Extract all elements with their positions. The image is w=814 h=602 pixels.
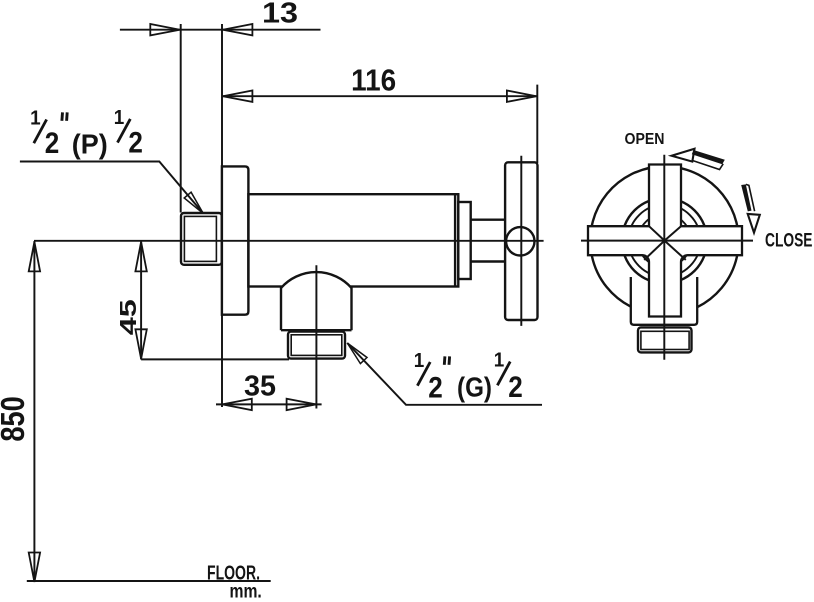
- leader to outlet thread: [347, 343, 367, 364]
- svg-text:1: 1: [414, 350, 425, 372]
- svg-text:CLOSE: CLOSE: [765, 231, 813, 252]
- hub circle: [506, 227, 534, 255]
- valve body: [248, 194, 458, 286]
- dimension 116 extension line: [536, 85, 538, 163]
- elbow outlet (dome): [281, 272, 352, 331]
- OPEN rotate arrow: [672, 149, 695, 162]
- svg-text:35: 35: [244, 371, 276, 403]
- dimension 13 extension lines: [181, 24, 222, 407]
- front view big circle (trimmed at bell): [590, 166, 738, 307]
- svg-text:2: 2: [45, 127, 60, 160]
- svg-text:mm.: mm.: [230, 582, 262, 602]
- outlet hex nut: [288, 332, 345, 359]
- handle vertical center line: [520, 156, 522, 326]
- svg-text:2: 2: [428, 371, 443, 404]
- svg-text:45: 45: [115, 299, 141, 335]
- svg-text:116: 116: [351, 62, 396, 97]
- front view torus circles: [622, 198, 707, 283]
- floor line: [27, 580, 271, 582]
- cross mitre diagonals: [644, 226, 686, 260]
- front view cross handle: [588, 165, 742, 317]
- svg-text:1: 1: [494, 350, 505, 372]
- bonnet: [458, 202, 470, 279]
- svg-text:2: 2: [128, 127, 143, 160]
- svg-text:(G): (G): [457, 372, 492, 403]
- svg-text:850: 850: [0, 396, 31, 442]
- svg-text:(P): (P): [72, 129, 108, 160]
- line under outlet (45 reference): [141, 358, 289, 360]
- dimension 13: [120, 29, 321, 31]
- dimension 850: [33, 241, 35, 582]
- dimension 116: [222, 95, 537, 97]
- stem: [471, 220, 506, 262]
- elbow vertical center line: [315, 265, 317, 408]
- front view bell (lower body): [631, 277, 697, 325]
- front view center lines: [581, 155, 753, 360]
- svg-text:2: 2: [508, 371, 523, 404]
- dimension 45: [140, 241, 142, 360]
- leader to inlet thread: [20, 162, 203, 213]
- dimension 35: [216, 403, 322, 405]
- handle side view: [505, 162, 537, 320]
- svg-text:1: 1: [114, 107, 125, 129]
- center line (main horizontal axis): [34, 240, 544, 242]
- svg-text:1: 1: [30, 108, 40, 130]
- CLOSE rotate arrow: [748, 214, 760, 233]
- inlet hex nut: [181, 213, 222, 265]
- svg-text:13: 13: [262, 0, 298, 29]
- front view outlet nut: [638, 327, 692, 352]
- wall flange: [222, 166, 249, 314]
- svg-text:OPEN: OPEN: [625, 131, 665, 148]
